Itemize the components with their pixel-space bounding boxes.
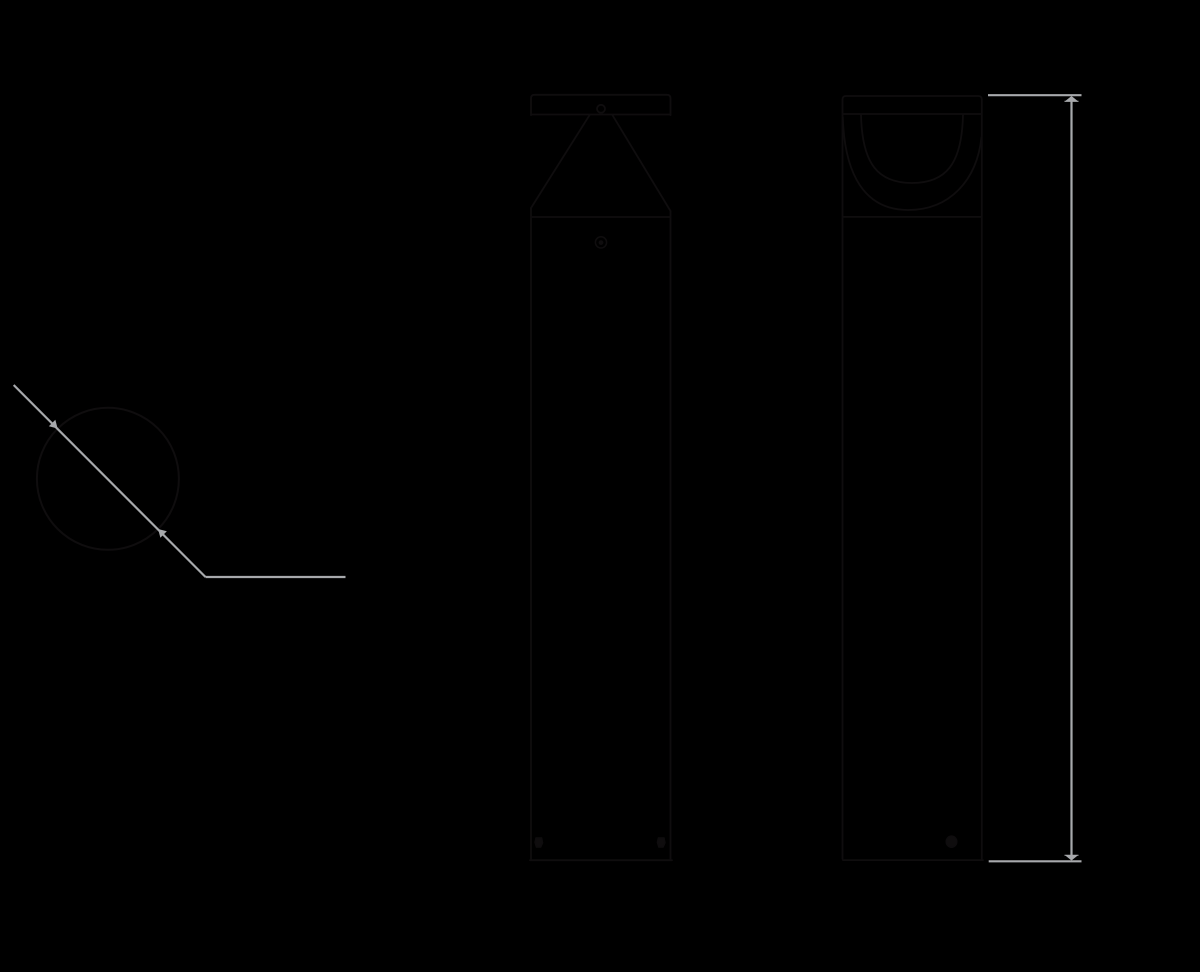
diameter leader: horizontal segment [206,576,346,578]
front view: left body edge [530,208,532,859]
front view: small knob on band [597,105,605,113]
side view: outer U curve [843,117,982,210]
diameter leader: diagonal segment [14,385,206,577]
diameter arrow lower-right [158,529,167,538]
vertical dimension line [1070,97,1072,860]
top extension line [988,94,1082,96]
diameter arrow upper-left [49,420,58,429]
side view: bottom line [843,859,983,861]
front view: emblem inner dot [599,240,604,245]
front view: left caster foot [535,838,543,848]
side view: outer box with rounded top corners [843,96,982,859]
front view: right caster foot [657,838,665,848]
front view: band bottom line [531,114,671,116]
front view: emblem outer circle [595,237,606,248]
detail circle (diameter callout) [37,408,179,550]
bottom dimension arrow [1065,855,1079,861]
side view: separator line [843,216,982,218]
front view: neck left diagonal [531,115,590,208]
bottom extension line [989,860,1082,862]
top dimension arrow [1065,96,1079,102]
side view: band bottom line [843,113,982,115]
front view: top band (rounded rect outline) [531,95,671,115]
front view: body top separator line [531,216,671,218]
side view: caster foot [946,836,957,848]
side view: inner U curve [861,115,963,184]
front view: right body edge [670,211,672,859]
front view: bottom line [530,859,672,861]
front view: neck right diagonal [613,115,671,211]
